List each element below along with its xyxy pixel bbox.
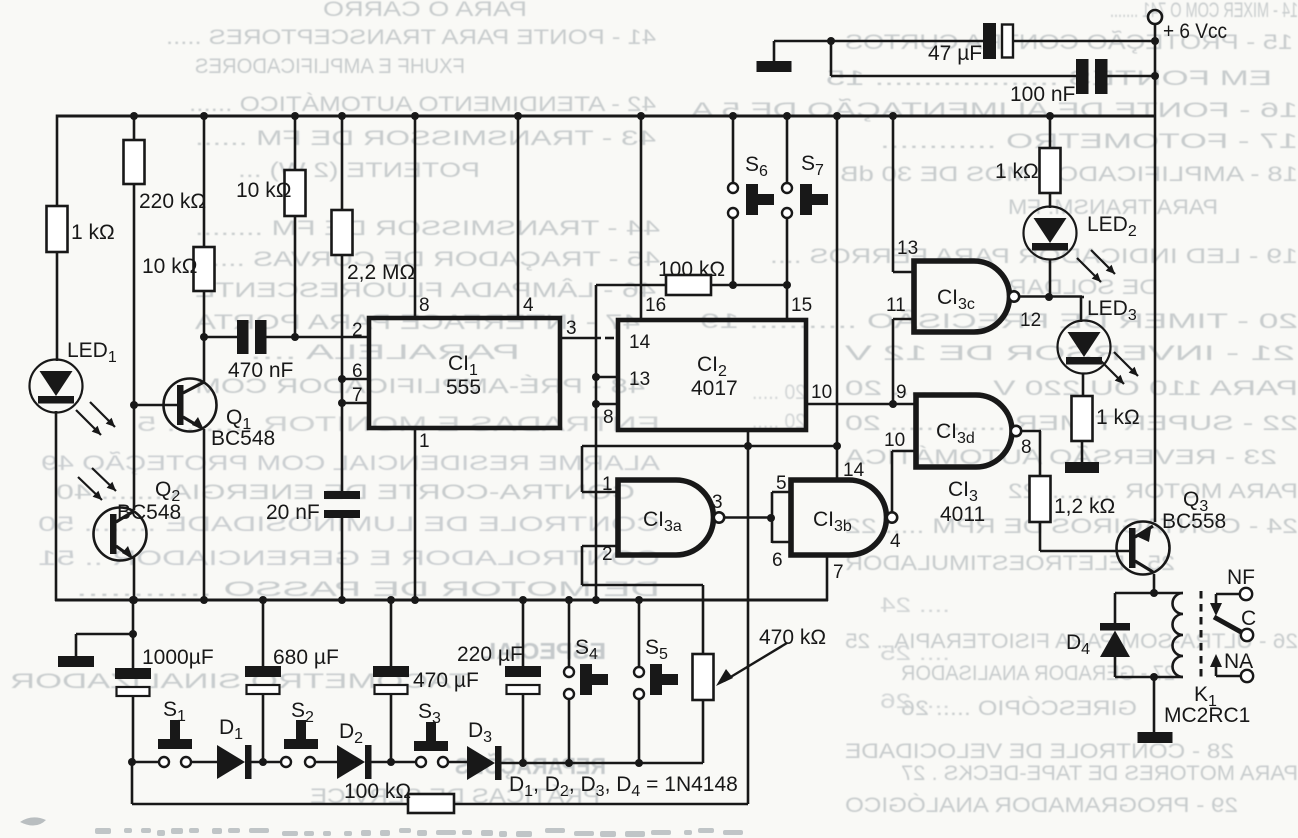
svg-text:20 nF: 20 nF [266,501,320,524]
svg-text:220 kΩ: 220 kΩ [139,190,206,213]
wire cap680 lower [262,694,265,762]
junction top bus / R10k-b [291,112,299,120]
wire CI3a pin 1 [582,491,618,494]
wire Q1 base [134,404,177,407]
junction top bus / pin16 [637,112,645,120]
svg-text:7: 7 [352,385,363,406]
gate CI3c NAND [914,261,1009,332]
svg-text:BC548: BC548 [211,427,275,450]
svg-text:44 - TRANSMISSOR DE FM .......: 44 - TRANSMISSOR DE FM ........ [195,217,660,240]
svg-text:4017: 4017 [691,377,738,400]
wire S7 lower [786,218,789,285]
svg-text:13: 13 [897,238,918,259]
svg-text:.... 26: .... 26 [880,690,950,713]
svg-text:14: 14 [629,332,651,353]
wire Q2 emitter to bus [133,556,136,601]
wire D4 branch upper [1114,593,1117,623]
wire CI2 pin 10 out [806,403,916,406]
wire CI1 pin 8 [414,116,417,318]
svg-text:15: 15 [791,295,812,316]
output bubble CI3d [1011,426,1021,436]
svg-text:2: 2 [352,320,363,341]
transistor Q1 BC548 [164,379,217,432]
wire CI3c pin 13 [893,271,914,274]
junction bus / cap220 column [519,596,527,604]
bottom edge cut-off print remnants [20,817,743,837]
junction top bus / R220k [130,112,138,120]
junction Q1 collector / C470n [200,333,208,341]
diode D1 [217,745,245,779]
wire D3 to S4 [501,762,569,765]
LED LED2 [1024,207,1077,260]
svg-text:470 µF: 470 µF [413,669,479,692]
junction node-A / CI3b pin14 [833,442,841,450]
junction 47u / 100n branch [827,37,835,45]
wire +6V top bus [56,115,1156,118]
wire CI3b out up to CI3d [891,451,894,512]
ground symbol (left) [58,656,94,667]
wire LED1 to ground bus [55,411,58,601]
gate CI3a NAND [618,480,714,555]
contact C arm [1241,629,1253,641]
wire CI3c pin 11 [893,318,914,321]
svg-text:2: 2 [602,544,613,565]
wire S3 to D3 [448,761,467,764]
wire CI3a pin2 dropper [581,546,584,585]
svg-text:3: 3 [566,318,577,339]
wire R1,2k to Q3 base [1039,522,1042,551]
junction C470n / R10k-b [291,333,299,341]
wire 100k right lead [711,284,787,287]
switch S3 [416,757,426,767]
wire CI2 pin 8 [596,403,618,406]
wire bus to R2M2 [341,116,344,211]
wire LED2 to node [1049,259,1052,297]
wire left drop to bottom loop [131,762,134,804]
wire bottom row [569,762,703,765]
junction top bus / pin4 [514,112,522,120]
wire node-A horizontal [582,445,837,448]
svg-text:1000µF: 1000µF [142,646,214,669]
wire CI3a pin1 riser [581,446,584,492]
junction rail / 47u wire [1151,37,1159,45]
wire cap680 upper [262,600,265,666]
wire C470n right to CI1 pin2 [266,336,370,339]
wire CI2 pin 16 [640,116,643,320]
wire feedback to R470k [702,585,705,655]
contact NA [1241,670,1253,682]
svg-text:PARA O CARRO: PARA O CARRO [323,0,527,21]
wire CI1 pin 3 out [560,337,601,340]
junction S7 bottom [783,281,791,289]
svg-text:9: 9 [896,382,907,403]
wire S4 lower [568,699,571,763]
LED LED3 [1058,321,1111,374]
svg-text:23 - REVERSÃO AUTOMÁTICA: 23 - REVERSÃO AUTOMÁTICA [845,445,1277,469]
svg-text:BC558: BC558 [1162,510,1226,533]
wire bus to R10k-a [203,116,206,248]
wire bus to R1k-LED2 [1049,116,1052,149]
junction S1 row left [128,758,136,766]
junction top bus / pin8 [411,112,419,120]
svg-text:4: 4 [890,531,901,552]
contact NF [1240,588,1252,600]
resistor R 2,2M [332,210,353,255]
svg-text:2,2 MΩ: 2,2 MΩ [347,261,415,284]
junction S6 bottom [729,281,737,289]
junction LED2 cathode node [1045,293,1053,301]
wire R220k to Q2 collector [133,184,136,510]
svg-text:6: 6 [772,550,783,571]
wire CI3d pin 10 [892,450,916,453]
output bubble CI3c [1009,291,1019,301]
wire CI3b pin 6 [772,541,791,544]
svg-text:16: 16 [645,295,666,316]
svg-text:PARA MOTORES DE TAPE-DECKS . 2: PARA MOTORES DE TAPE-DECKS . 27 [901,762,1298,785]
junction CI3b input bracket [767,514,775,522]
junction pin7 node [338,399,346,407]
wire S6 upper [732,116,735,183]
svg-text:8: 8 [603,407,614,428]
wire 47uF to rail [1013,40,1155,43]
switch S5 [634,667,644,677]
capacitor C 1000uF [115,668,151,679]
wire +6V rail right [1154,24,1157,116]
wire cap470 lower [390,694,393,762]
wire D4 branch lower [1114,657,1117,677]
junction top bus / R10k-a [200,112,208,120]
svg-text:4011: 4011 [940,503,985,526]
ground symbol (relay) [1138,732,1173,743]
junction node-A / CI2 bottom [744,442,752,450]
svg-text:14 - MIXER COM O 741 .......: 14 - MIXER COM O 741 ....... [1110,0,1298,22]
wire CI3c out [1019,295,1082,298]
svg-text:47 µF: 47 µF [928,42,982,65]
svg-text:+ 6 Vcc: + 6 Vcc [1163,20,1227,43]
junction cap680 bottom [259,758,267,766]
svg-text:41 - PONTE PARA TRANSCEPTORES: 41 - PONTE PARA TRANSCEPTORES ..... [166,26,656,49]
junction top bus / S6 [729,112,737,120]
wire D1 to S2 [251,761,281,764]
wire ground bottom bus [55,599,828,602]
capacitor C 220uF [505,666,541,677]
svg-text:555: 555 [446,376,481,399]
junction bus / S5 [635,596,643,604]
wire S2 to D2 [315,761,337,764]
svg-text:470 kΩ: 470 kΩ [759,626,826,649]
wire cap470 upper [390,600,393,666]
resistor R 100k (loop) [408,794,454,813]
relay actuator dashed line [1200,591,1203,681]
capacitor C 470uF [373,666,409,677]
wire C20n to bus [341,518,344,601]
output bubble CI3a [714,512,724,522]
junction bus / Q1 emitter [200,596,208,604]
svg-text:1,2 kΩ: 1,2 kΩ [1054,495,1115,518]
svg-text:18 - AMPLIFICADOR MOS DE 30 dB: 18 - AMPLIFICADOR MOS DE 30 dB [840,163,1298,186]
resistor R 470k [693,654,714,700]
svg-text:5: 5 [776,473,787,494]
svg-text:1: 1 [419,431,430,452]
arrow to R470k [724,643,787,681]
junction relay top / collector [1150,589,1158,597]
svg-text:4: 4 [523,295,534,316]
gate CI3b NAND [791,480,887,555]
wire 100nF net [831,75,1076,78]
wire cap1000 column upper [132,600,135,668]
wire cap220 upper [522,600,525,666]
resistor R 10k (pin2 pullup) [285,170,306,216]
junction relay bottom / ground [1150,673,1158,681]
wire feedback horizontal [582,584,703,587]
wire CI1 pin 7 [342,402,369,405]
terminal +6Vcc [1148,10,1162,24]
wire R470k to bottom row [702,700,705,763]
svg-text:8: 8 [1021,437,1032,458]
resistor R 1k (LED3) [1072,396,1093,441]
svg-text:.... 24: .... 24 [880,594,950,617]
junction bus / cap680 column [259,596,267,604]
svg-text:1: 1 [602,474,613,495]
wire relay bottom [1115,676,1183,679]
junction top bus / CI3 vdd drop [833,112,841,120]
wire S4 upper [568,600,571,667]
junction cap220 bottom [519,759,527,767]
transistor Q3 BC558 [1117,522,1170,575]
junction pin6 node [338,375,346,383]
junction rail / 100n wire [1151,72,1159,80]
wire LED3 to R1k [1082,373,1085,396]
svg-text:NF: NF [1227,566,1255,589]
IC CI1 555 box [369,318,560,428]
diode D4 [1100,623,1130,631]
svg-text:C: C [1241,607,1256,630]
junction top bus / S7 [783,112,791,120]
wire bus to R220k [133,116,136,141]
svg-text:16 - FONTE DE ALIMENTAÇÃO DE 5: 16 - FONTE DE ALIMENTAÇÃO DE 5 A [691,98,1298,122]
ground symbol (top) [757,61,792,72]
junction ground branch [129,630,137,638]
junction bus / reset drop [592,596,600,604]
resistor R 1k (LED2) [1040,148,1061,193]
wire S5 lower [638,699,641,763]
wire CI3b pin 5 [772,491,791,494]
wire relay to ground [1153,677,1156,732]
wire CI2 pin 15 [786,285,789,320]
svg-text:45 - TRAÇADOR DE CURVAS ......: 45 - TRAÇADOR DE CURVAS ...... [195,248,660,271]
wire S7 upper [786,116,789,183]
svg-text:.... 25: .... 25 [880,642,950,665]
junction bus / Q2 emitter [130,596,138,604]
svg-text:1 kΩ: 1 kΩ [995,160,1039,183]
svg-text:27 - GERADOR ANALISADOR: 27 - GERADOR ANALISADOR [901,662,1175,685]
light rays from LED1 [76,410,101,435]
wire CI1 pin 4 [517,116,520,318]
junction cap470 bottom [387,758,395,766]
wire 100nF to rail [1107,75,1155,78]
wire CI3c pin11 drop [892,319,895,404]
light rays from LED3 [1100,360,1124,384]
svg-text:6: 6 [352,361,363,382]
junction bus / pin1 [411,596,419,604]
wire CI3b input bracket [771,492,774,543]
resistor R 1,2k [1030,476,1051,522]
junction top bus / CI3c pin13 [889,112,897,120]
wire R10k-a to Q1 collector node [203,291,206,338]
svg-text:DE MOTOR DE PASSO ............: DE MOTOR DE PASSO ............ [76,578,660,601]
svg-text:10 kΩ: 10 kΩ [236,179,291,202]
junction bus / C20n [338,596,346,604]
svg-text:25 - ELETROESTIMULADOR: 25 - ELETROESTIMULADOR [845,552,1175,575]
wire cap1000 lower [132,695,135,762]
wire relay top [1115,592,1183,595]
svg-text:680 µF: 680 µF [273,646,339,669]
junction top bus / R2M2 [338,112,346,120]
capacitor C 20nF [324,491,360,499]
svg-text:220 µF: 220 µF [457,643,523,666]
diode D2 [337,745,365,779]
junction bus / cap470 column [387,596,395,604]
svg-text:10 kΩ: 10 kΩ [142,255,197,278]
junction Q1 base node [130,401,138,409]
wire D2 to S3 [371,761,416,764]
capacitor C 470nF [237,320,249,354]
switch S1 [133,761,159,764]
junction pin11 / CI2 out [889,400,897,408]
wire ground branch [76,633,133,636]
output bubble CI3b [887,512,897,522]
svg-text:28 - CONTROLE DE VELOCIDADE: 28 - CONTROLE DE VELOCIDADE [845,740,1234,763]
wire CI3a pin 2 [582,545,618,548]
wire 100n branch drop [830,41,833,76]
capacitor C 47uF [983,23,996,59]
junction bus / S4 [565,596,573,604]
wire 47uF net [774,40,983,43]
svg-text:470 nF: 470 nF [228,359,293,382]
switch S2 [281,757,291,767]
wire C470n left [204,336,237,339]
IC CI2 4017 box [618,320,806,430]
ground symbol (LED3) [1065,462,1099,473]
svg-text:MC2RC1: MC2RC1 [1164,704,1250,727]
svg-text:100 nF: 100 nF [1010,83,1075,106]
capacitor C 100nF [1076,59,1089,94]
wire CI2 pin 13 [596,376,618,379]
junction top bus / R1k-LED2 [1046,112,1054,120]
wire CI3d out [1021,430,1041,433]
wire R10k-b down [294,216,297,337]
switch S4 [564,667,574,677]
dash pin3-pin14 link [605,337,614,340]
junction S5 bottom row [635,759,643,767]
svg-text:14: 14 [843,460,865,481]
junction reset/pin13 [592,373,600,381]
wire CI1 pin 1 [414,428,417,601]
svg-text:D1, D2, D3, D4 = 1N4148: D1, D2, D3, D4 = 1N4148 [509,773,738,800]
svg-text:BC548: BC548 [117,501,181,524]
svg-text:11: 11 [886,295,906,316]
svg-text:10: 10 [884,430,905,451]
resistor R 1k (left) [47,206,68,252]
wire S5 upper [638,600,641,667]
relay coil K1 [1173,593,1184,677]
wire CI3c pin13 drop [892,116,895,272]
svg-text:100 kΩ: 100 kΩ [344,780,411,803]
wire R1k to ground (LED3) [1081,441,1084,462]
wire CI3a out to CI3b in [724,516,772,519]
wire R1k to LED2 [1049,193,1052,208]
transistor Q2 BC548 (photo) [94,508,147,561]
svg-text:7: 7 [833,562,844,583]
wire bus to R10k-b [294,116,297,171]
light rays from LED2 [1077,258,1101,282]
svg-text:8: 8 [419,295,430,316]
wire S6 lower [732,218,735,285]
svg-text:1 kΩ: 1 kΩ [1096,406,1140,429]
wire node to LED3 [1080,297,1083,322]
svg-text:13: 13 [629,369,650,390]
svg-text:43 - TRANSMISSOR DE FM ......: 43 - TRANSMISSOR DE FM ...... [195,127,656,150]
junction S4 bottom row [565,759,573,767]
diode D3 [467,746,495,780]
resistor R 220k [124,140,145,184]
resistor R 10k (Q1 collector) [194,247,215,291]
wire bottom loop [132,803,748,806]
wire CI3b pin 7 [826,555,829,601]
wire left column top [56,115,59,209]
svg-text:FXUHF E AMPLIFICADORES: FXUHF E AMPLIFICADORES [195,55,465,78]
wire Q3 collector to relay [1153,574,1156,593]
light rays into Q2 [78,477,102,500]
svg-text:NA: NA [1224,650,1253,673]
switch S7 [782,183,792,193]
switch S6 [728,183,738,193]
svg-text:42 - ATENDIMENTO AUTOMÁTICO ..: 42 - ATENDIMENTO AUTOMÁTICO ...... [189,93,656,116]
svg-text:29 - PROGRAMADOR ANALÓGICO: 29 - PROGRAMADOR ANALÓGICO [845,794,1238,817]
svg-text:24 - CONTAGIROS DE RPM ..... 2: 24 - CONTAGIROS DE RPM ..... 22 [845,515,1298,538]
wire CI1 pin 6 [342,378,369,381]
svg-text:1 kΩ: 1 kΩ [71,221,115,244]
svg-text:17 - FOTOMETRO ............: 17 - FOTOMETRO ............ [880,130,1298,153]
wire CI3 vdd drop [836,116,839,446]
wire long drop to bottom loop [747,446,750,804]
junction reset/pin8 [592,400,600,408]
svg-text:10: 10 [811,382,832,403]
svg-text:100 kΩ: 100 kΩ [658,258,725,281]
wire reset net left drop [595,285,598,601]
svg-text:12: 12 [1020,310,1041,331]
wire R1k to LED1 [56,252,59,361]
junction bus / cap1000 column [129,596,137,604]
resistor R 100k (reset) [666,275,711,295]
wire CI3b pin 14 [836,446,839,480]
wire S1 to D1 [191,761,217,764]
wire CI2 bottom pin [747,430,750,446]
wire 100k left lead [596,284,666,287]
wire R2M2 down to pins 6-7 [341,255,344,492]
capacitor C 680uF [245,666,281,677]
wire cap220 lower [522,694,525,763]
svg-text:3: 3 [712,492,723,513]
gate CI3d NAND [916,395,1012,467]
svg-text:20 .....: 20 ..... [752,381,806,404]
LED LED1 [30,360,83,413]
